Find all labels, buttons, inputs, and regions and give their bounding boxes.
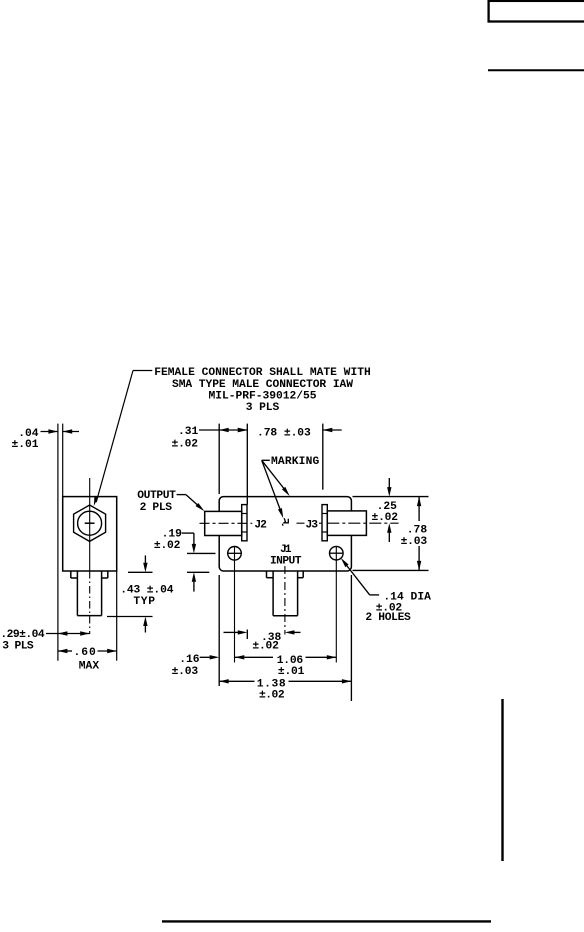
svg-text:MARKING: MARKING <box>271 456 320 468</box>
svg-text:±.03: ±.03 <box>172 666 199 678</box>
svg-text:±.02: ±.02 <box>252 641 279 653</box>
svg-text:2 PLS: 2 PLS <box>140 502 173 514</box>
svg-text:OUTPUT: OUTPUT <box>137 490 176 502</box>
svg-text:±.02: ±.02 <box>172 439 199 451</box>
svg-text:J2: J2 <box>254 520 267 532</box>
svg-text:3 PLS: 3 PLS <box>2 641 34 653</box>
svg-text:MIL-PRF-39012/55: MIL-PRF-39012/55 <box>209 390 317 402</box>
svg-text:±.02: ±.02 <box>259 689 285 701</box>
svg-text:±.03: ±.03 <box>401 536 428 548</box>
svg-text:.19: .19 <box>162 528 183 540</box>
svg-text:.78: .78 <box>407 525 428 537</box>
svg-text:2 HOLES: 2 HOLES <box>365 612 411 624</box>
svg-text:INPUT: INPUT <box>270 556 302 568</box>
svg-text:1.06: 1.06 <box>277 655 304 667</box>
svg-text:.04: .04 <box>18 428 38 440</box>
svg-text:.16: .16 <box>179 654 200 666</box>
svg-text:MAX: MAX <box>79 660 100 672</box>
svg-text:±.02: ±.02 <box>372 512 399 524</box>
svg-text:.29±.04: .29±.04 <box>0 629 44 641</box>
svg-text:3 PLS: 3 PLS <box>246 402 280 414</box>
svg-text:J1: J1 <box>280 544 292 556</box>
svg-text:.60: .60 <box>74 647 97 659</box>
svg-text:.43 ±.04: .43 ±.04 <box>120 585 174 597</box>
svg-text:±.02: ±.02 <box>154 540 181 552</box>
svg-text:±.01: ±.01 <box>278 666 305 678</box>
svg-text:.31: .31 <box>178 426 199 438</box>
svg-text:FEMALE CONNECTOR SHALL MATE WI: FEMALE CONNECTOR SHALL MATE WITH <box>154 367 371 379</box>
svg-text:J3: J3 <box>306 520 319 532</box>
svg-text:TYP: TYP <box>133 596 155 608</box>
svg-text:.78 ±.03: .78 ±.03 <box>257 428 311 440</box>
svg-text:SMA TYPE MALE CONNECTOR IAW: SMA TYPE MALE CONNECTOR IAW <box>172 379 353 391</box>
svg-text:±.01: ±.01 <box>12 439 39 451</box>
